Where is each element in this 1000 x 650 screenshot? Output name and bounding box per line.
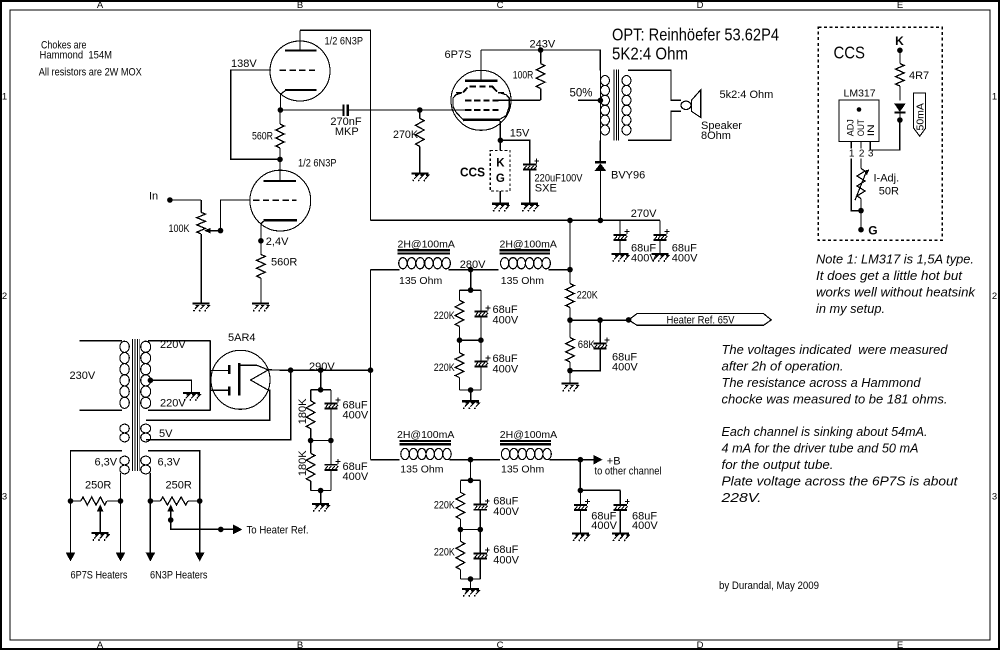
svg-text:It does get a little hot but: It does get a little hot but: [816, 269, 963, 283]
ground divider: [312, 503, 329, 505]
tube 5AR4 envelope: [211, 350, 270, 409]
wire cathode to bypass cap: [500, 140, 529, 164]
svg-text:15V: 15V: [510, 128, 530, 140]
wire net2 bottom rail: [460, 578, 480, 580]
wire pin1 to pot bottom: [851, 159, 861, 211]
svg-text:to other channel: to other channel: [595, 465, 662, 477]
regulator LM317 box: [839, 100, 879, 141]
svg-text:220K: 220K: [434, 547, 456, 559]
svg-text:All resistors are 2W MOX: All resistors are 2W MOX: [39, 67, 143, 79]
node network2 top: [468, 478, 474, 484]
wire choke3 feed: [371, 459, 400, 461]
wire 6P7S plate to OPT: [481, 50, 600, 70]
svg-text:1/2 6N3P: 1/2 6N3P: [298, 158, 337, 170]
node divider bottom: [318, 488, 324, 494]
resistor 250R (6P7S humpot): [71, 500, 81, 502]
pt hv bottom lead: [148, 409, 210, 411]
node pot bottom: [858, 208, 864, 214]
svg-text:180K: 180K: [297, 398, 309, 424]
choke L1 2H@100mA: [398, 249, 451, 251]
node K: [897, 48, 903, 54]
tube 5AR4 plates: [210, 370, 228, 372]
resistor 220K (net1 upper): [459, 290, 461, 300]
capacitor 68uF 400V (divider lower): [330, 441, 332, 465]
node 68K bottom: [567, 368, 573, 374]
node net1 mid right: [478, 337, 484, 343]
ccs detail dashed box: [818, 27, 942, 240]
tube 6P7S envelope: [451, 70, 511, 130]
svg-text:K: K: [496, 157, 505, 169]
wire V1a plate to bus: [300, 30, 371, 220]
wire pin3 to diode node: [870, 120, 900, 150]
ground center tap: [183, 392, 200, 394]
ground 270V cap a: [612, 253, 629, 255]
svg-text:E: E: [897, 0, 903, 11]
wire pin3: [869, 141, 871, 148]
node heater ref wire: [218, 527, 224, 533]
arrow to heater ref: [233, 525, 242, 535]
node 100K wiper: [218, 228, 224, 234]
pot I-Adj arrow: [855, 173, 866, 201]
svg-text:220K: 220K: [434, 362, 456, 374]
svg-text:228V.: 228V.: [720, 491, 761, 505]
ccs module box K G: [490, 150, 510, 191]
wire choke2 out: [549, 269, 571, 271]
ground heater ref divider: [562, 383, 579, 385]
pt hv top lead: [148, 340, 210, 342]
wire bypass cap to ground: [529, 170, 531, 204]
svg-text:2H@100mA: 2H@100mA: [398, 238, 455, 250]
wire cap1 drop: [619, 220, 621, 234]
svg-text:Note 1: LM317 is 1,5A type.: Note 1: LM317 is 1,5A type.: [816, 253, 974, 267]
svg-text:8Ohm: 8Ohm: [701, 130, 731, 142]
svg-text:SXE: SXE: [535, 182, 557, 194]
wire cathode out 290V: [268, 369, 290, 371]
node divider mid right: [328, 438, 334, 444]
svg-text:G: G: [868, 224, 877, 238]
potentiometer 100K: [200, 200, 202, 212]
wire choke feed vertical: [370, 270, 372, 460]
ground 270K: [412, 172, 429, 174]
wire pot to G: [860, 211, 862, 230]
resistor 270K (grid leak): [419, 110, 421, 118]
svg-text:2H@100mA: 2H@100mA: [500, 429, 557, 441]
node ccs out: [897, 117, 903, 123]
svg-text:A: A: [97, 640, 104, 650]
resistor 560R (V1b cathode): [260, 241, 262, 255]
svg-text:400V: 400V: [493, 506, 519, 518]
wire heater c down: [149, 501, 151, 553]
resistor 220K (net2 lower): [459, 530, 461, 542]
svg-text:6P7S Heaters: 6P7S Heaters: [71, 570, 128, 582]
arrow 6N3P heater c: [146, 553, 156, 562]
wire screen to 100R: [498, 99, 540, 101]
wire heater d down: [199, 501, 201, 553]
ground ccs module: [492, 203, 509, 205]
svg-text:400V: 400V: [343, 410, 369, 422]
tube 5AR4 filament: [251, 370, 269, 390]
svg-text:220V: 220V: [160, 397, 186, 409]
wire ccs box to ground: [499, 191, 501, 203]
svg-text:LM317: LM317: [844, 88, 876, 100]
svg-text:50R: 50R: [879, 186, 899, 198]
ground 100K pot: [192, 303, 209, 305]
wire 6,3V left top: [71, 451, 123, 501]
svg-text:C: C: [497, 0, 504, 11]
wire net2 to ground: [470, 579, 472, 589]
resistor 220K (net1 lower): [459, 340, 461, 353]
wire 280V drop: [470, 270, 472, 291]
svg-text:6,3V: 6,3V: [158, 456, 181, 468]
diode BVY96: [595, 161, 606, 163]
svg-text:220K: 220K: [434, 500, 456, 512]
svg-text:works well without heatsink: works well without heatsink: [816, 286, 976, 300]
svg-text:by Durandal, May 2009: by Durandal, May 2009: [719, 580, 819, 592]
svg-text:6N3P Heaters: 6N3P Heaters: [150, 570, 208, 582]
svg-text:400V: 400V: [672, 252, 698, 264]
node 280V: [468, 267, 474, 273]
heater ref banner: [629, 314, 772, 326]
capacitor 68uF 400V (net1 upper): [480, 290, 482, 311]
wire divider top rail: [311, 389, 331, 391]
node divider mid left: [308, 438, 314, 444]
wire net1 bottom rail: [460, 389, 481, 391]
pt primary winding: [120, 341, 129, 352]
resistor 220K (net2 upper): [459, 480, 461, 492]
capacitor 270nF MKP: [342, 105, 344, 116]
resistor 180K lower: [310, 441, 312, 454]
node bus diode: [598, 218, 604, 224]
svg-text:1: 1: [849, 149, 855, 160]
node heater a: [68, 498, 74, 504]
svg-text:100R: 100R: [513, 70, 534, 82]
ground net1: [462, 400, 479, 402]
wire 138V feedback: [231, 70, 280, 159]
capacitor 68uF 400V (+B b): [619, 490, 621, 504]
wire lower drop: [470, 460, 472, 481]
wire divider mid rail: [311, 440, 331, 442]
wire pin2: [860, 141, 862, 148]
capacitor 68uF 400V (270V rail a): [613, 234, 626, 236]
wire divider drop: [320, 370, 322, 390]
svg-text:270K: 270K: [393, 129, 419, 141]
svg-text:560R: 560R: [252, 131, 273, 143]
node net1 bottom: [468, 387, 474, 393]
pt hv secondary winding: [141, 341, 151, 352]
svg-text:D: D: [697, 640, 704, 650]
node 290V: [288, 367, 294, 373]
resistor 4R7: [899, 50, 901, 63]
svg-text:250R: 250R: [85, 480, 111, 492]
svg-text:3: 3: [2, 491, 7, 502]
svg-text:135 Ohm: 135 Ohm: [501, 275, 544, 287]
wire heater b down: [120, 501, 122, 553]
ground +B cap b: [612, 532, 629, 534]
node lower filter mid: [468, 457, 474, 463]
capacitor 68uF 400V (+B a): [579, 490, 581, 504]
svg-text:135 Ohm: 135 Ohm: [400, 464, 443, 476]
tube V1b cathode: [264, 219, 297, 221]
node 6P7S grid: [417, 107, 423, 113]
pt 5V winding: [120, 424, 129, 433]
humpot right wiper: [170, 511, 172, 520]
svg-text:ADJ: ADJ: [845, 119, 856, 136]
tube V1a plate: [285, 49, 317, 51]
node heater b: [118, 498, 124, 504]
svg-text:1: 1: [992, 92, 997, 103]
svg-text:6P7S: 6P7S: [445, 49, 472, 61]
svg-text:220V: 220V: [160, 339, 186, 351]
node 6P7S cathode 15V: [498, 138, 504, 144]
node net2 mid left: [458, 527, 464, 533]
node heater ref left: [567, 317, 573, 323]
tube V1b (1/2 6N3P lower) envelope: [250, 170, 311, 231]
arrow 6P7S heater b: [116, 553, 126, 562]
node 290V chokes: [368, 367, 374, 373]
wire divider to ground: [320, 491, 322, 504]
wire wiper to V1b grid: [221, 200, 251, 231]
svg-text:220K: 220K: [577, 289, 599, 301]
ground V1b cathode resistor: [252, 303, 269, 305]
resistor 100R (screen): [540, 50, 542, 64]
wire grid node to 6P7S: [420, 109, 465, 111]
node input: [167, 197, 173, 203]
node choke output: [567, 267, 573, 273]
svg-text:2: 2: [2, 291, 7, 302]
svg-text:5K2:4 Ohm: 5K2:4 Ohm: [612, 44, 688, 64]
svg-text:50mA: 50mA: [914, 103, 926, 130]
wire +B caps rail: [580, 489, 620, 491]
svg-text:MKP: MKP: [335, 126, 359, 138]
node net1 mid left: [457, 337, 463, 343]
svg-text:5k2:4 Ohm: 5k2:4 Ohm: [720, 89, 774, 101]
svg-text:Plate voltage across the 6P7S: Plate voltage across the 6P7S is about: [722, 474, 959, 488]
svg-text:243V: 243V: [530, 39, 556, 51]
wire 6,3V right bottom: [149, 473, 151, 501]
wire 290V rail: [291, 369, 371, 371]
node +B caps: [578, 488, 584, 494]
svg-text:2H@100mA: 2H@100mA: [500, 238, 557, 250]
svg-text:1: 1: [2, 92, 7, 103]
arrow 6P7S heater a: [66, 553, 76, 562]
node net2 bottom: [468, 576, 474, 582]
arrow +B: [593, 455, 602, 465]
svg-text:5V: 5V: [159, 428, 173, 440]
wire opt secondary top: [628, 70, 681, 100]
wire bus to choke node: [569, 220, 571, 269]
svg-text:G: G: [496, 173, 505, 185]
svg-text:IN: IN: [866, 124, 877, 136]
svg-text:In: In: [149, 191, 158, 203]
svg-text:6,3V: 6,3V: [95, 456, 118, 468]
tube 6P7S screen grid: [456, 87, 504, 93]
ground net2: [462, 588, 479, 590]
tube 5AR4 cathode: [238, 363, 241, 395]
wire cap to grid node: [349, 109, 420, 111]
resistor 220K (dropper): [569, 270, 571, 284]
svg-text:BVY96: BVY96: [611, 169, 645, 181]
tube V1b plate: [264, 180, 296, 182]
svg-text:400V: 400V: [591, 520, 617, 532]
svg-text:280V: 280V: [460, 259, 486, 271]
svg-text:400V: 400V: [632, 520, 658, 532]
resistor 68K: [569, 320, 571, 337]
wire pin1: [850, 141, 852, 148]
choke L3 2H@100mA: [400, 440, 451, 442]
pt hv right link: [209, 341, 211, 411]
svg-text:138V: 138V: [231, 58, 257, 70]
wire input to pot: [170, 199, 201, 201]
tube V1b grid: [253, 199, 297, 201]
resistor 560R (V1a cathode): [279, 110, 281, 124]
svg-text:135 Ohm: 135 Ohm: [501, 464, 544, 476]
wire 6,3V right top: [148, 451, 200, 501]
svg-text:400V: 400V: [493, 555, 519, 567]
svg-text:CCS: CCS: [834, 43, 866, 63]
tube 6P7S grid1: [465, 109, 498, 111]
opt 50% tap: [578, 99, 601, 101]
ground +B cap a: [572, 532, 589, 534]
svg-text:in my setup.: in my setup.: [816, 302, 885, 316]
wire 5V bottom to 290V: [146, 370, 291, 440]
svg-text:E: E: [897, 640, 903, 650]
wire filament to 5V top: [146, 390, 270, 420]
node network1 top: [468, 287, 474, 293]
svg-text:after 2h of operation.: after 2h of operation.: [722, 360, 844, 374]
wire cap2 drop: [659, 220, 661, 234]
svg-text:chocke was measured to be 181: chocke was measured to be 181 ohms.: [722, 392, 948, 406]
opt primary winding: [599, 50, 601, 161]
pt center tap: [148, 378, 154, 384]
wire opt bottom to diode: [599, 140, 601, 161]
svg-text:68K: 68K: [578, 339, 596, 351]
wire 6,3V left bottom: [120, 473, 122, 501]
capacitor 68uF 400V (270V rail b): [653, 234, 666, 236]
node heater ref cap: [597, 317, 603, 323]
svg-text:D: D: [697, 0, 704, 11]
wire heater a down: [70, 501, 72, 553]
svg-text:2: 2: [992, 291, 997, 302]
svg-text:for the output tube.: for the output tube.: [722, 458, 834, 472]
wire cap2 to ground: [659, 240, 661, 253]
pot I-Adj 50R: [860, 159, 862, 169]
svg-text:To Heater Ref.: To Heater Ref.: [247, 525, 309, 537]
svg-text:4 mA for the driver tube and 5: 4 mA for the driver tube and 50 mA: [722, 442, 919, 456]
wire net1 mid rail: [460, 339, 481, 341]
wire net2 mid rail: [460, 529, 480, 531]
opt core: [613, 70, 615, 141]
capacitor 68uF 400V (divider upper): [330, 390, 332, 403]
capacitor 68uF 400V (heater ref): [599, 320, 601, 343]
svg-text:250R: 250R: [166, 480, 192, 492]
node 243V: [538, 47, 544, 53]
svg-text:C: C: [497, 640, 504, 650]
wire 68K to ground: [569, 371, 571, 384]
svg-text:400V: 400V: [343, 471, 369, 483]
node V1a cathode: [278, 107, 284, 113]
node bus left: [567, 218, 573, 224]
svg-text:3: 3: [992, 491, 997, 502]
svg-text:5AR4: 5AR4: [228, 332, 256, 344]
tube V1a (1/2 6N3P upper) envelope: [270, 41, 330, 101]
wire heater ref out: [171, 520, 233, 529]
wire V1a cathode to cap: [280, 109, 342, 111]
wire net1 to ground: [470, 390, 472, 401]
svg-text:A: A: [97, 0, 104, 11]
tube V1a cathode: [285, 89, 317, 91]
node heater ref tap: [168, 517, 174, 523]
tube 6P7S beam plates: [453, 93, 464, 121]
svg-text:50%: 50%: [570, 86, 593, 100]
wire choke1 out: [449, 269, 499, 271]
svg-text:Heater Ref. 65V: Heater Ref. 65V: [667, 314, 736, 326]
resistor 180K upper: [310, 390, 312, 401]
speaker: [681, 101, 691, 109]
svg-text:220K: 220K: [434, 310, 456, 322]
svg-text:B: B: [297, 640, 303, 650]
tube 6P7S plate: [465, 80, 498, 82]
node net2 mid right: [478, 527, 484, 533]
wire 270V bus: [371, 219, 661, 221]
svg-text:CCS: CCS: [460, 166, 485, 180]
pt primary lead top: [80, 340, 122, 342]
capacitor 68uF 400V (net2 upper): [479, 480, 481, 504]
wire cathode to ccs box: [499, 140, 501, 150]
wire heater ref rail: [570, 319, 629, 321]
wire choke3 out: [450, 459, 501, 461]
wire opt secondary bottom: [628, 111, 681, 140]
svg-text:I-Adj.: I-Adj.: [874, 173, 900, 185]
node G: [858, 227, 864, 233]
svg-text:Hammond 154M: Hammond 154M: [40, 50, 113, 62]
choke L2 2H@100mA: [499, 249, 550, 251]
choke L4 2H@100mA: [500, 440, 551, 442]
humpot left wiper: [99, 511, 101, 533]
svg-text:2H@100mA: 2H@100mA: [397, 429, 454, 441]
wire +B drop: [579, 460, 581, 491]
svg-text:B: B: [297, 0, 303, 11]
svg-text:The resistance across a Hammon: The resistance across a Hammond: [722, 376, 922, 390]
ground 270V cap b: [652, 253, 669, 255]
node +B: [578, 457, 584, 463]
svg-text:135 Ohm: 135 Ohm: [399, 275, 442, 287]
svg-text:400V: 400V: [493, 314, 519, 326]
svg-text:2,4V: 2,4V: [266, 236, 289, 248]
node V1b cathode: [258, 238, 264, 244]
tube V1a grid: [280, 69, 315, 71]
svg-text:400V: 400V: [612, 361, 638, 373]
svg-text:400V: 400V: [493, 363, 519, 375]
node divider top: [318, 387, 324, 393]
wire divider bottom rail: [311, 490, 331, 492]
wire choke1 feed: [371, 269, 400, 271]
opt secondary winding: [622, 76, 631, 86]
wire network1 top rail: [460, 289, 481, 291]
svg-text:270V: 270V: [631, 208, 657, 220]
node heater d: [197, 498, 203, 504]
diode ccs: [894, 103, 906, 112]
svg-text:2: 2: [859, 149, 865, 160]
svg-text:1/2 6N3P: 1/2 6N3P: [325, 36, 364, 48]
pt 6,3V windings: [120, 456, 129, 465]
resistor 250R (6N3P humpot): [150, 500, 160, 502]
wire cap1 to ground: [619, 240, 621, 253]
arrow 6N3P heater d: [195, 553, 205, 562]
lm317 dot: [857, 107, 862, 112]
node 290V divider: [318, 367, 324, 373]
node heater c: [148, 498, 154, 504]
svg-text:100K: 100K: [169, 223, 191, 235]
